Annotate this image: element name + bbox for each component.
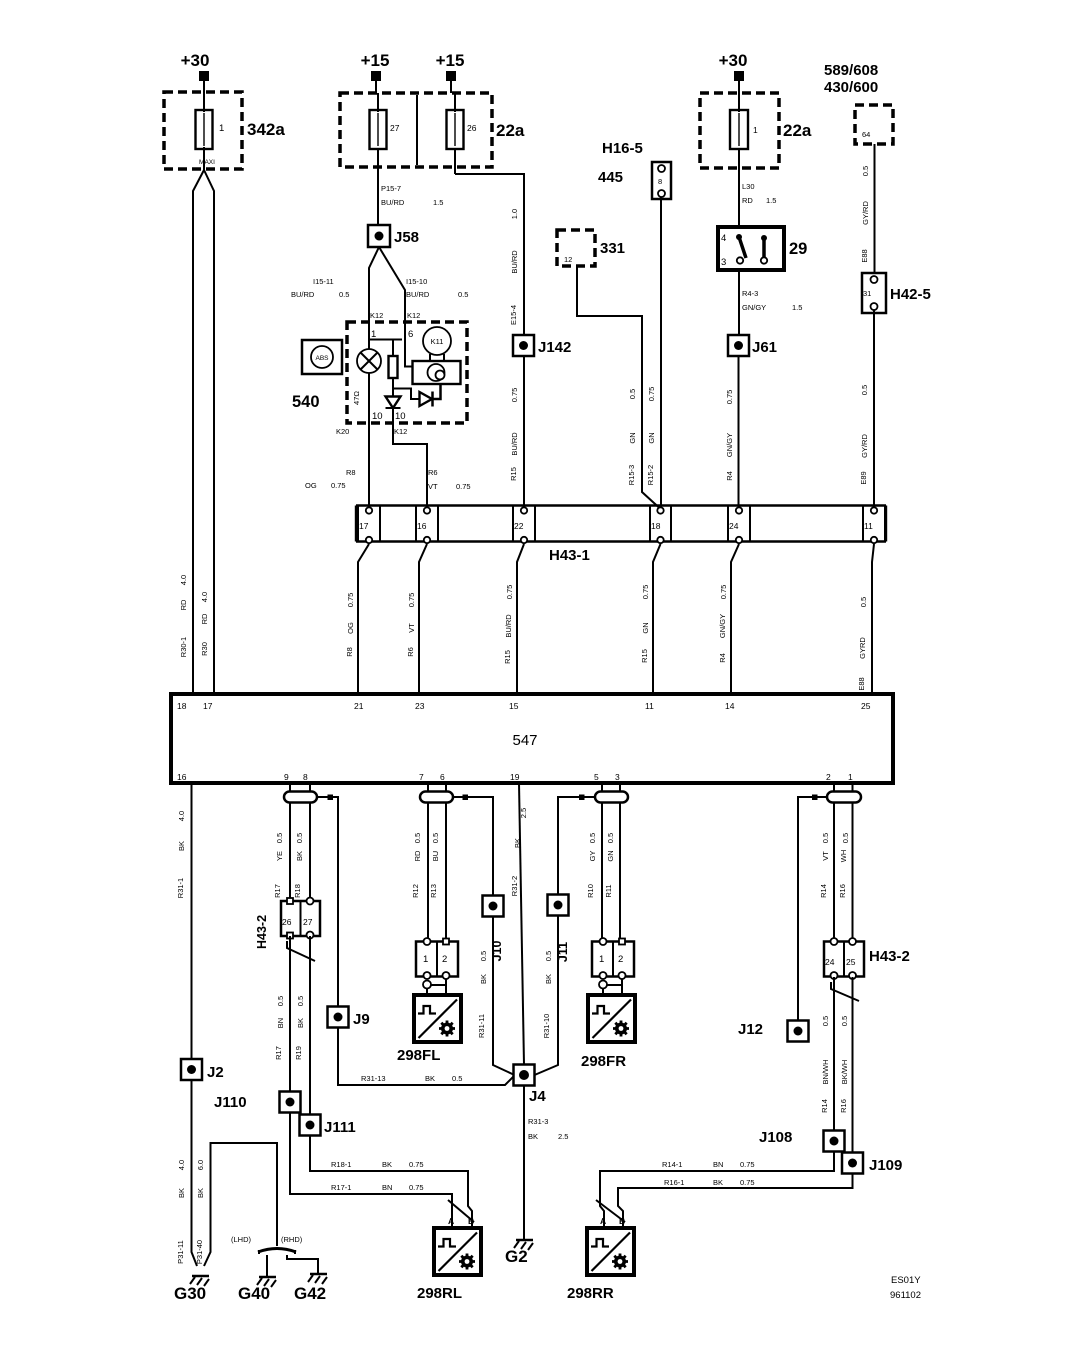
svg-text:331: 331 — [600, 240, 625, 257]
svg-text:1: 1 — [371, 329, 376, 340]
svg-text:0.75: 0.75 — [740, 1160, 755, 1169]
svg-text:K12: K12 — [370, 311, 383, 320]
wire I15-11 (J58 to K12 pin 1) — [369, 247, 379, 322]
svg-text:R30-1: R30-1 — [179, 637, 188, 657]
svg-text:0.75: 0.75 — [641, 585, 650, 600]
wire R11 (547 pin 3 down) — [619, 783, 621, 942]
wire H43-1 pin24 to 547 pin 14 — [731, 544, 739, 694]
ground G2 — [505, 1240, 533, 1266]
svg-text:1.5: 1.5 — [433, 198, 443, 207]
svg-text:H42-5: H42-5 — [890, 286, 931, 303]
svg-text:E88: E88 — [857, 677, 866, 690]
svg-text:R13: R13 — [429, 884, 438, 898]
svg-text:G30: G30 — [174, 1284, 206, 1303]
svg-text:24: 24 — [825, 957, 835, 967]
pump motor K11 — [423, 327, 451, 361]
svg-text:589/608: 589/608 — [824, 62, 878, 79]
svg-text:2: 2 — [618, 954, 623, 965]
connector strip H43-1 — [356, 506, 886, 565]
svg-text:BK: BK — [713, 1178, 723, 1187]
svg-text:26: 26 — [467, 123, 477, 133]
wire R31-2 (547 pin 19 to J4) — [519, 783, 524, 1065]
resistor 47ohm — [352, 356, 398, 405]
svg-text:R15-3: R15-3 — [627, 465, 636, 485]
wire R12 (547 pin 7 down) — [427, 783, 429, 942]
connector H43-2 (pins 26/27) — [255, 898, 320, 950]
wire R15-2 (445 to H43-1 pin 18) — [660, 197, 662, 508]
svg-text:R6: R6 — [428, 468, 438, 477]
svg-text:22a: 22a — [496, 121, 525, 140]
svg-text:298FL: 298FL — [397, 1047, 440, 1064]
svg-text:27: 27 — [390, 123, 400, 133]
twisted pair screen (7/6) — [420, 792, 453, 803]
wire pin 6 into pump — [405, 322, 413, 367]
svg-text:BU/RD: BU/RD — [291, 290, 315, 299]
svg-text:WH: WH — [839, 850, 848, 863]
svg-text:VT: VT — [821, 851, 830, 861]
svg-text:P15-7: P15-7 — [381, 184, 401, 193]
wire R17-1 (J110 to 298RL pin A) — [290, 1113, 452, 1229]
svg-text:BN: BN — [382, 1183, 392, 1192]
svg-text:0.5: 0.5 — [588, 833, 597, 843]
svg-text:2.5: 2.5 — [519, 808, 528, 818]
svg-text:B: B — [468, 1216, 474, 1226]
switch 331 (dashed) — [557, 230, 625, 266]
svg-text:VT: VT — [407, 623, 416, 633]
svg-text:BU/RD: BU/RD — [504, 614, 513, 638]
svg-text:547: 547 — [512, 732, 537, 749]
svg-text:R31-3: R31-3 — [528, 1117, 548, 1126]
svg-text:I15-11: I15-11 — [313, 277, 334, 286]
svg-text:R31-2: R31-2 — [510, 876, 519, 896]
svg-text:0.5: 0.5 — [296, 996, 305, 1006]
svg-text:1: 1 — [599, 954, 604, 965]
junction J10 — [483, 896, 505, 962]
svg-text:0.75: 0.75 — [725, 390, 734, 405]
svg-text:4.0: 4.0 — [179, 575, 188, 585]
svg-text:0.5: 0.5 — [458, 290, 468, 299]
svg-text:4: 4 — [721, 233, 726, 244]
svg-text:BK: BK — [382, 1160, 392, 1169]
svg-text:8: 8 — [658, 177, 662, 186]
svg-text:R12: R12 — [411, 884, 420, 898]
svg-text:0.75: 0.75 — [346, 593, 355, 608]
svg-text:0.5: 0.5 — [544, 951, 553, 961]
svg-text:E15-4: E15-4 — [509, 305, 518, 325]
svg-text:25: 25 — [861, 701, 871, 711]
wire R4-3 — [738, 270, 740, 336]
svg-text:7: 7 — [419, 772, 424, 782]
svg-text:R31-13: R31-13 — [361, 1074, 386, 1083]
svg-text:0.5: 0.5 — [841, 833, 850, 843]
wires +15 into fuse box — [376, 81, 451, 93]
sensor lead slash (298RL) — [448, 1200, 474, 1222]
wire R18 (547 pin 8 down) — [309, 783, 311, 901]
svg-text:J108: J108 — [759, 1129, 792, 1146]
sensor lead slash (298RR) — [596, 1200, 625, 1222]
junction J58 — [368, 225, 419, 247]
svg-text:RD: RD — [179, 599, 188, 610]
svg-text:2: 2 — [442, 954, 447, 965]
wire R14 (547 pin 2 down) — [833, 783, 835, 942]
svg-text:BK: BK — [544, 974, 553, 984]
ground G42 — [294, 1274, 327, 1303]
svg-text:4.0: 4.0 — [177, 1160, 186, 1170]
diode D2 (to pump) — [420, 384, 441, 407]
svg-text:BK: BK — [196, 1188, 205, 1198]
svg-text:P31-40: P31-40 — [195, 1240, 204, 1264]
svg-text:31: 31 — [863, 289, 871, 298]
junction J12 — [738, 1021, 809, 1042]
svg-text:0.75: 0.75 — [409, 1160, 424, 1169]
screen drain to J12 — [798, 797, 827, 1021]
svg-text:0.5: 0.5 — [413, 833, 422, 843]
svg-text:G42: G42 — [294, 1284, 326, 1303]
svg-text:11: 11 — [645, 701, 654, 711]
svg-text:2.5: 2.5 — [558, 1132, 568, 1141]
wire R19 (to J111) — [309, 936, 311, 1114]
svg-text:BK: BK — [295, 851, 304, 861]
svg-text:BU/RD: BU/RD — [510, 432, 519, 456]
wire R10 (547 pin 5 down) — [601, 783, 603, 942]
+15 supply terminal (fuse 27) — [361, 51, 390, 81]
svg-text:R4: R4 — [725, 471, 734, 481]
svg-text:24: 24 — [729, 521, 739, 531]
connector 298FL pins 1/2 — [416, 938, 458, 979]
svg-text:1: 1 — [219, 123, 224, 134]
svg-text:E88: E88 — [860, 249, 869, 262]
svg-text:J142: J142 — [538, 339, 571, 356]
svg-text:10: 10 — [395, 411, 406, 422]
wire to G42 — [287, 1255, 318, 1273]
wheel sensor 298FR — [581, 995, 635, 1070]
svg-text:342a: 342a — [247, 120, 285, 139]
wire R31-13 (J9 to J4) — [338, 1028, 515, 1086]
svg-text:3: 3 — [721, 257, 726, 268]
twisted pair screen (5/3) — [595, 792, 628, 803]
wire R8 (lamp to H43-1 pin 17) — [368, 373, 370, 505]
svg-text:R15: R15 — [503, 650, 512, 664]
svg-text:BK: BK — [479, 974, 488, 984]
svg-text:BK: BK — [296, 1018, 305, 1028]
svg-text:GY/RD: GY/RD — [860, 434, 869, 458]
svg-text:+30: +30 — [181, 51, 210, 70]
junction J61 — [728, 335, 777, 356]
svg-text:0.5: 0.5 — [479, 951, 488, 961]
svg-text:K12: K12 — [407, 311, 420, 320]
svg-text:0.5: 0.5 — [452, 1074, 462, 1083]
LHD/RHD selector contact — [231, 1235, 303, 1254]
svg-text:18: 18 — [177, 701, 187, 711]
svg-text:GN: GN — [606, 850, 615, 861]
svg-text:MAXI: MAXI — [199, 159, 215, 166]
svg-text:A: A — [600, 1216, 606, 1226]
wire R31-3 (J4 to G2) — [523, 1086, 525, 1240]
svg-text:P31-11: P31-11 — [176, 1240, 185, 1264]
svg-text:0.5: 0.5 — [859, 597, 868, 607]
wire H43-1 pin17 to 547 pin 21 — [358, 544, 369, 694]
wire R18-1 (J111 to 298RL pin B) — [310, 1136, 472, 1229]
svg-text:6: 6 — [408, 329, 413, 340]
svg-text:BU/RD: BU/RD — [381, 198, 405, 207]
switch 29 — [718, 227, 807, 270]
svg-text:430/600: 430/600 — [824, 79, 878, 96]
wire R17 (to J110) — [289, 936, 291, 1091]
svg-text:H16-5: H16-5 — [602, 140, 643, 157]
svg-text:GN: GN — [647, 432, 656, 443]
svg-text:R8: R8 — [346, 468, 356, 477]
svg-text:0.75: 0.75 — [456, 482, 471, 491]
wire R13 (547 pin 6 down) — [445, 783, 447, 942]
wire R6 (diode to H43-1 pin 16) — [393, 408, 427, 505]
svg-text:GY/RD: GY/RD — [861, 201, 870, 225]
svg-text:BN: BN — [276, 1018, 285, 1028]
wire R16 (to J109) — [852, 977, 854, 1153]
svg-text:R15: R15 — [509, 467, 518, 481]
svg-text:0.5: 0.5 — [821, 833, 830, 843]
fuse 1 MAXI — [196, 92, 225, 170]
svg-text:GN/GY: GN/GY — [725, 433, 734, 457]
svg-text:2: 2 — [826, 772, 831, 782]
svg-text:J4: J4 — [529, 1088, 546, 1105]
wire R17 (547 pin 9 down) — [289, 783, 291, 901]
wire internal bus — [369, 340, 402, 357]
screen drain to J11 — [558, 797, 595, 895]
svg-text:R4-3: R4-3 — [742, 289, 758, 298]
svg-text:961102: 961102 — [890, 1290, 921, 1301]
svg-text:9: 9 — [284, 772, 289, 782]
svg-text:+30: +30 — [719, 51, 748, 70]
svg-text:R4: R4 — [718, 653, 727, 663]
diode D1 (to pin 10) — [386, 397, 401, 409]
svg-text:R14-1: R14-1 — [662, 1160, 682, 1169]
svg-text:0.75: 0.75 — [331, 481, 346, 490]
wire R31-10 (J11 to J4) — [535, 916, 559, 1076]
svg-text:26: 26 — [282, 917, 292, 927]
wire to G40 — [266, 1255, 268, 1276]
svg-text:ES01Y: ES01Y — [891, 1275, 921, 1286]
wire resistor to diode — [392, 378, 394, 397]
svg-text:K20: K20 — [336, 427, 349, 436]
svg-text:R17: R17 — [273, 884, 282, 898]
svg-text:R15: R15 — [640, 649, 649, 663]
svg-text:16: 16 — [177, 772, 187, 782]
junction J111 — [300, 1115, 356, 1137]
svg-text:RD: RD — [413, 850, 422, 861]
svg-text:K11: K11 — [431, 337, 444, 346]
svg-text:BK: BK — [513, 838, 522, 848]
svg-text:25: 25 — [846, 957, 856, 967]
svg-text:540: 540 — [292, 393, 320, 411]
svg-text:H43-2: H43-2 — [869, 948, 910, 965]
wire H43-1 pin11 to 547 pin 25 — [872, 544, 874, 694]
svg-text:K12: K12 — [394, 427, 407, 436]
svg-text:19: 19 — [510, 772, 520, 782]
wire node to diode D2 — [393, 389, 420, 400]
svg-text:298RR: 298RR — [567, 1285, 614, 1302]
svg-text:23: 23 — [415, 701, 425, 711]
svg-text:4.0: 4.0 — [177, 811, 186, 821]
svg-text:GY: GY — [588, 851, 597, 862]
svg-text:GYRD: GYRD — [858, 637, 867, 659]
screen slash mark — [287, 941, 315, 961]
svg-text:GN: GN — [628, 432, 637, 443]
svg-text:0.75: 0.75 — [505, 585, 514, 600]
wire P31-11 (J2 to G30) — [192, 1080, 198, 1266]
svg-text:R16-1: R16-1 — [664, 1178, 684, 1187]
+30 supply terminal (right) — [719, 51, 748, 81]
svg-text:BN/WH: BN/WH — [821, 1060, 830, 1085]
svg-text:445: 445 — [598, 169, 623, 186]
svg-text:GN/GY: GN/GY — [718, 614, 727, 638]
svg-text:E89: E89 — [859, 471, 868, 484]
wire +30 into fuse box — [738, 81, 740, 93]
wire R16-1 (J109 to 298RR pin B) — [618, 1174, 853, 1229]
svg-text:R18: R18 — [293, 884, 302, 898]
svg-text:G40: G40 — [238, 1284, 270, 1303]
svg-text:BK/WH: BK/WH — [840, 1060, 849, 1085]
svg-text:0.5: 0.5 — [628, 389, 637, 399]
svg-text:11: 11 — [864, 521, 873, 531]
wire I15-10 (J58 to K12 pin 6) — [379, 247, 405, 322]
svg-text:10: 10 — [372, 411, 383, 422]
wire H43-1 pin18 to 547 pin 11 — [653, 544, 661, 694]
svg-text:1: 1 — [753, 125, 758, 135]
wire R15-3 (331 to H43-1 pin 18) — [577, 266, 660, 508]
connector 64 (dashed) — [855, 105, 893, 144]
svg-text:1.5: 1.5 — [766, 196, 776, 205]
svg-text:R10: R10 — [586, 884, 595, 898]
svg-text:BK: BK — [528, 1132, 538, 1141]
hydraulic unit K12 (dashed enclosure) — [347, 322, 467, 423]
svg-text:R8: R8 — [345, 647, 354, 657]
svg-text:18: 18 — [651, 521, 661, 531]
fuse 1 — [730, 93, 758, 227]
svg-text:47Ω: 47Ω — [352, 391, 361, 405]
svg-text:R31-1: R31-1 — [176, 878, 185, 898]
wire P31-40 (G30 loop to LHD/RHD selector) — [204, 1143, 277, 1266]
fuse 27 — [370, 93, 400, 225]
svg-text:15: 15 — [509, 701, 519, 711]
ground G40 — [238, 1277, 276, 1303]
svg-text:YE: YE — [275, 851, 284, 861]
svg-text:BU/RD: BU/RD — [510, 250, 519, 274]
svg-text:1: 1 — [423, 954, 428, 965]
connector 298FR pins 1/2 — [592, 938, 634, 979]
junction J109 — [842, 1153, 902, 1175]
svg-text:BK: BK — [177, 1188, 186, 1198]
twisted pair screen (9/8) — [284, 792, 317, 803]
svg-text:29: 29 — [789, 240, 807, 258]
svg-text:R15-2: R15-2 — [646, 465, 655, 485]
svg-text:16: 16 — [417, 521, 427, 531]
svg-text:R6: R6 — [406, 647, 415, 657]
svg-text:6.0: 6.0 — [196, 1160, 205, 1170]
svg-text:GN/GY: GN/GY — [742, 303, 766, 312]
svg-text:(RHD): (RHD) — [281, 1235, 303, 1244]
connector H43-2 (pins 24/25) — [824, 938, 910, 979]
svg-text:0.5: 0.5 — [861, 166, 870, 176]
connector H42-5 — [862, 273, 931, 313]
svg-text:RD: RD — [200, 613, 209, 624]
wire R15 (J142 to H43-1 pin 22) — [523, 356, 525, 506]
svg-text:J58: J58 — [394, 229, 419, 246]
svg-text:R16: R16 — [838, 884, 847, 898]
svg-text:8: 8 — [303, 772, 308, 782]
svg-text:R14: R14 — [819, 884, 828, 898]
svg-text:H43-1: H43-1 — [549, 547, 590, 564]
svg-text:R17: R17 — [274, 1046, 283, 1060]
svg-text:1: 1 — [848, 772, 853, 782]
svg-text:GN: GN — [641, 622, 650, 633]
svg-text:+15: +15 — [436, 51, 465, 70]
junction J142 — [513, 335, 571, 356]
svg-text:0.5: 0.5 — [821, 1016, 830, 1026]
wire E88 — [874, 144, 876, 273]
svg-text:0.5: 0.5 — [339, 290, 349, 299]
svg-text:0.75: 0.75 — [409, 1183, 424, 1192]
ABS warning icon 540 — [292, 340, 342, 411]
svg-text:RD: RD — [742, 196, 753, 205]
junction J11 — [548, 895, 571, 963]
svg-text:6: 6 — [440, 772, 445, 782]
svg-text:R14: R14 — [820, 1099, 829, 1113]
svg-text:+15: +15 — [361, 51, 390, 70]
svg-text:22a: 22a — [783, 121, 812, 140]
wheel sensor 298RR — [567, 1228, 634, 1302]
svg-text:3: 3 — [615, 772, 620, 782]
svg-text:0.5: 0.5 — [276, 996, 285, 1006]
fuse 26 — [447, 93, 477, 174]
svg-text:12: 12 — [564, 255, 572, 264]
wire R4 (J61 to H43-1 pin 24) — [738, 356, 740, 506]
sensor terminal eyelet — [599, 979, 622, 995]
screen slash mark — [831, 982, 859, 1001]
svg-text:BK: BK — [425, 1074, 435, 1083]
svg-text:1.5: 1.5 — [792, 303, 802, 312]
wire R16 (547 pin 1 down) — [852, 783, 854, 942]
svg-text:R30: R30 — [200, 642, 209, 656]
svg-text:ABS: ABS — [315, 355, 329, 362]
screen drain to J9 — [317, 797, 338, 1006]
svg-text:0.5: 0.5 — [275, 833, 284, 843]
svg-text:G2: G2 — [505, 1247, 528, 1266]
svg-text:298RL: 298RL — [417, 1285, 462, 1302]
svg-text:64: 64 — [862, 130, 870, 139]
svg-text:J111: J111 — [324, 1119, 356, 1136]
svg-text:4.0: 4.0 — [200, 592, 209, 602]
screen drain to J10 — [453, 797, 493, 896]
svg-text:0.75: 0.75 — [510, 388, 519, 403]
svg-text:22: 22 — [514, 521, 524, 531]
svg-text:R19: R19 — [294, 1046, 303, 1060]
svg-text:R11: R11 — [604, 884, 613, 897]
svg-text:R16: R16 — [839, 1099, 848, 1113]
junction J2 — [181, 1059, 224, 1081]
twisted pair screen (2/1) — [827, 792, 861, 803]
+15 supply terminal (fuse 26) — [436, 51, 465, 81]
svg-text:0.5: 0.5 — [860, 385, 869, 395]
wire R30-1 (342a to 547 pin 18) — [193, 170, 204, 694]
wire from fuse 26 to J142 — [455, 174, 524, 336]
wire from +30 to fuse box 342a — [203, 81, 205, 92]
svg-text:1.0: 1.0 — [510, 209, 519, 219]
ground G30 — [174, 1276, 209, 1303]
junction J9 — [328, 1007, 370, 1029]
svg-text:0.5: 0.5 — [295, 833, 304, 843]
svg-text:L30: L30 — [742, 182, 755, 191]
svg-text:BK: BK — [177, 841, 186, 851]
